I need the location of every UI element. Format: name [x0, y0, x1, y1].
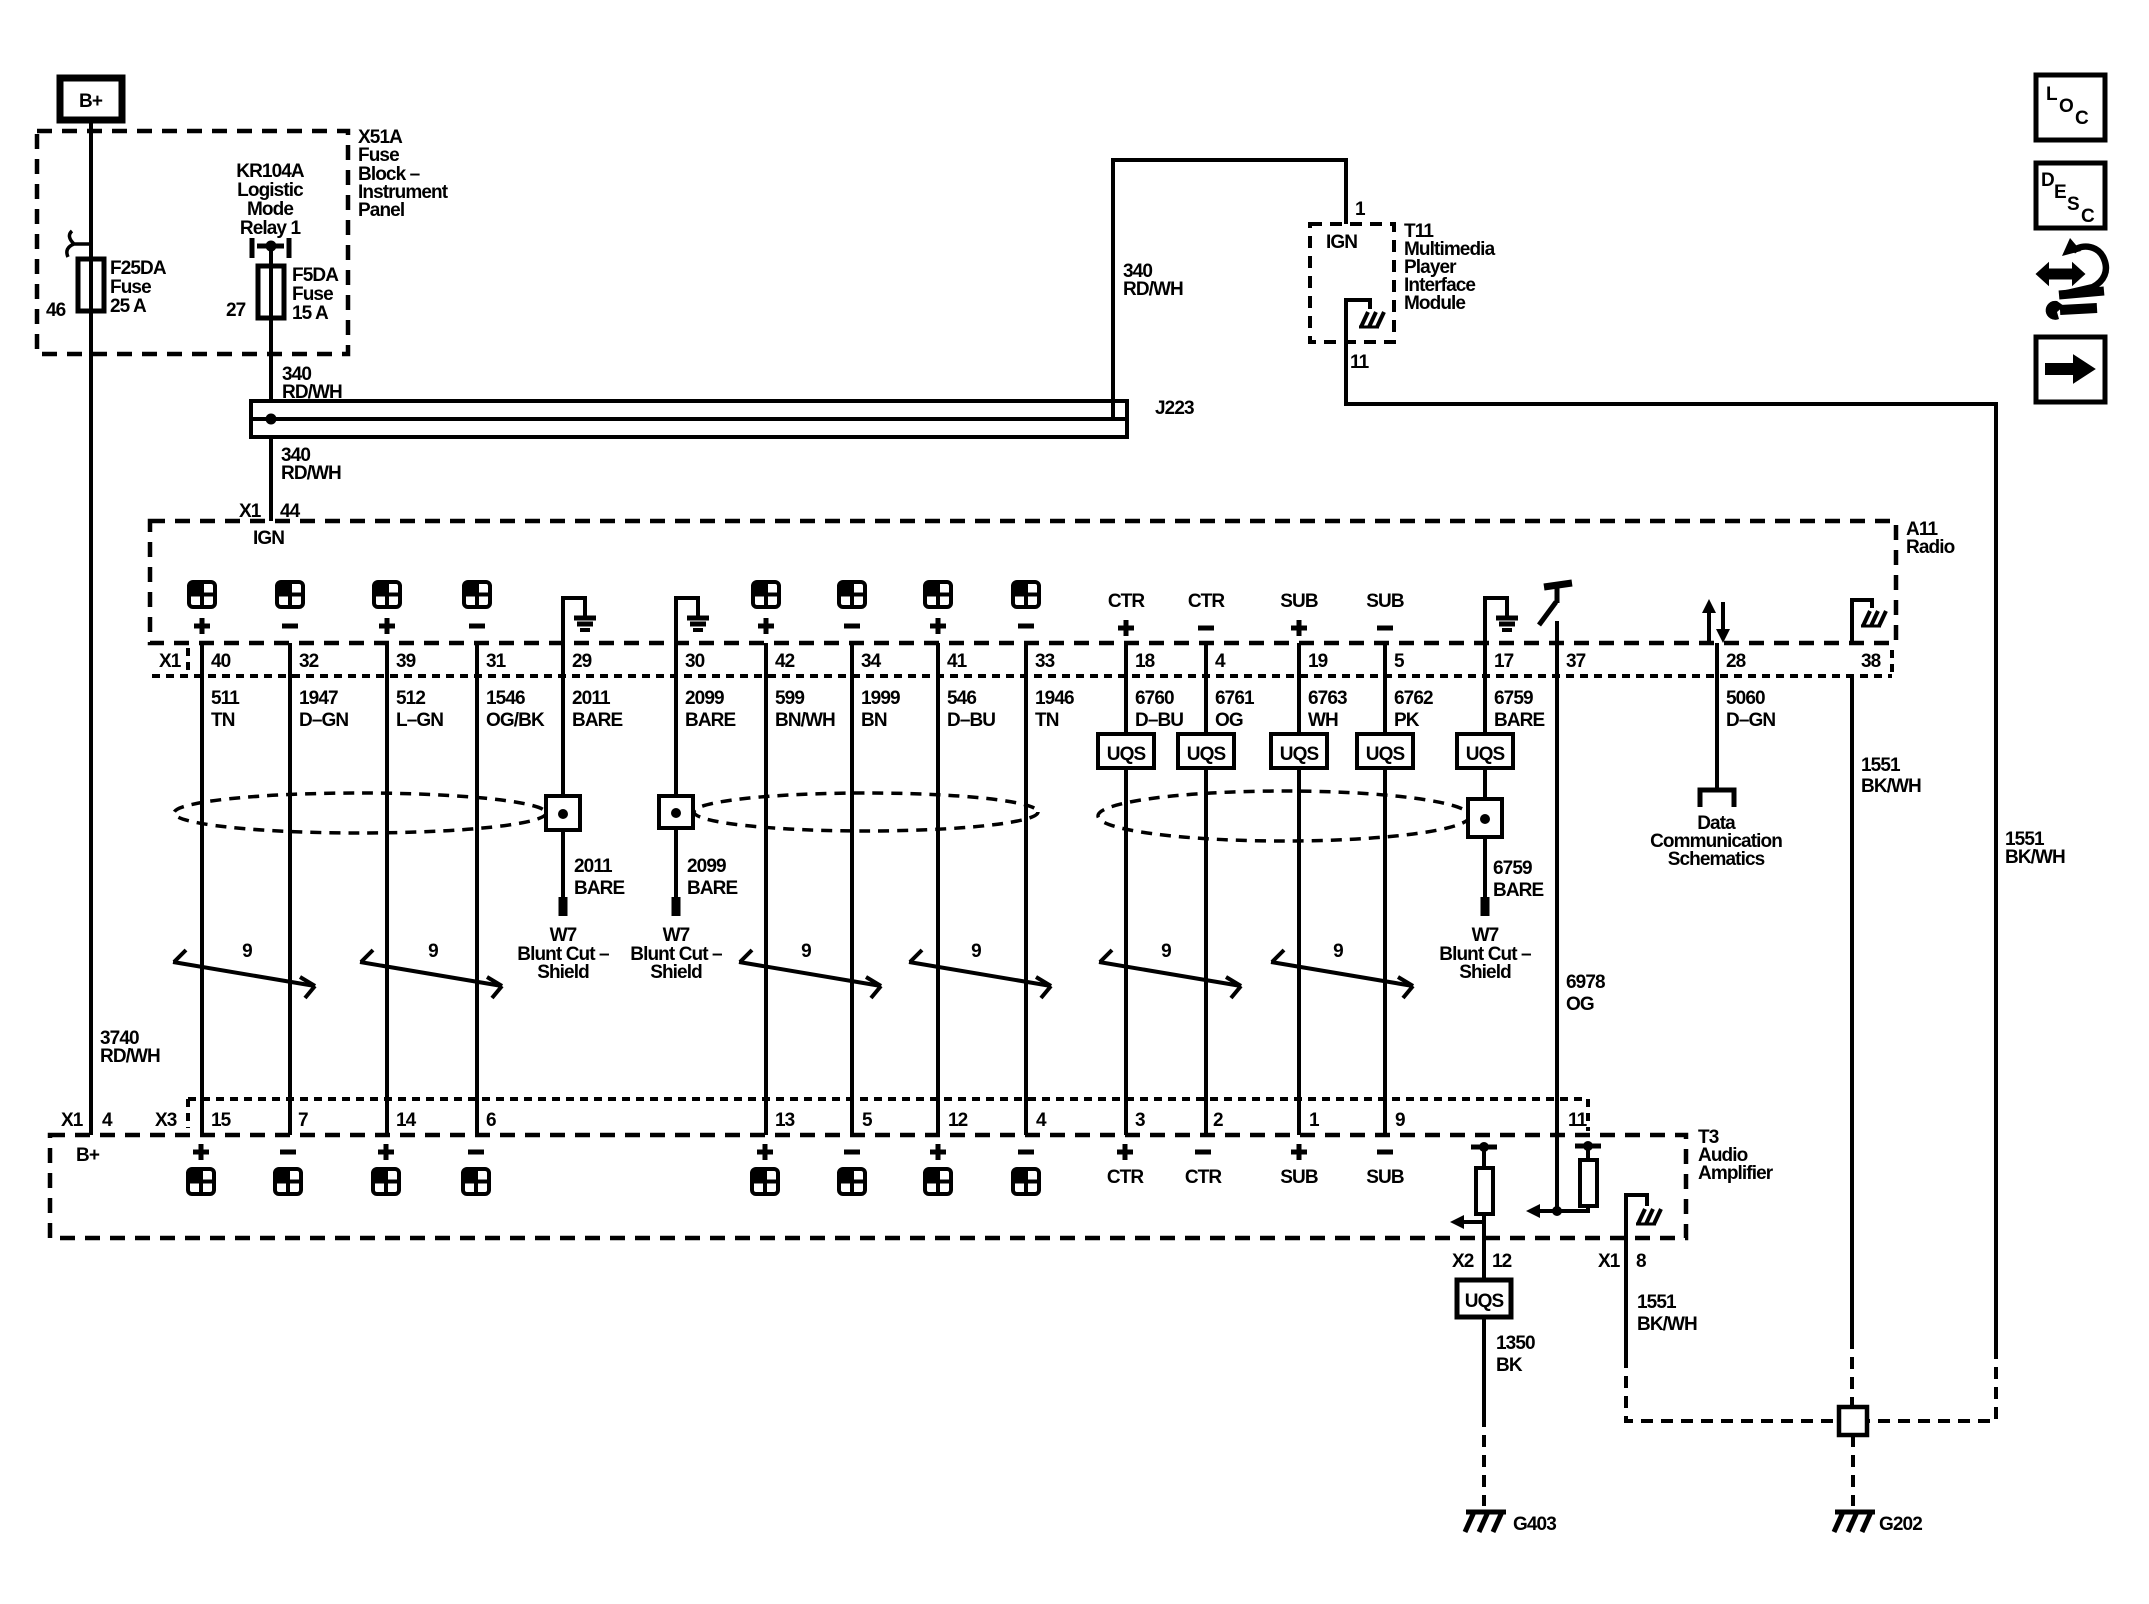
speaker output icon at radio pin x=387 [374, 582, 400, 607]
LOC legend box [2036, 75, 2105, 140]
speaker input icon at amp pin x=1026 [1013, 1169, 1039, 1194]
svg-text:Radio: Radio [1906, 537, 1955, 558]
amp internal chassis arrow at R-a [1450, 1215, 1484, 1229]
wire twist marker 9 #6 [1271, 950, 1413, 998]
svg-text:B+: B+ [76, 1145, 100, 1166]
svg-text:25 A: 25 A [110, 296, 147, 317]
svg-text:6: 6 [486, 1110, 496, 1131]
svg-text:C: C [2081, 206, 2095, 227]
polarity sign at x=1206 [1198, 626, 1214, 631]
shield tie box at pin 29 [546, 796, 580, 830]
fuse block X51A dashed outline [37, 131, 348, 354]
svg-text:W7: W7 [550, 925, 577, 946]
svg-text:CTR: CTR [1107, 1167, 1145, 1188]
fuse F25DA [78, 259, 104, 311]
svg-text:CTR: CTR [1108, 591, 1146, 612]
polarity sign at amp pin x=476 [468, 1150, 484, 1155]
svg-text:UQS: UQS [1465, 1291, 1504, 1312]
polarity sign at amp pin x=765 [757, 1144, 773, 1160]
shield tie box at pin 30 [659, 796, 693, 828]
twisted-pair ellipse front speakers [174, 793, 546, 833]
svg-text:Fuse: Fuse [358, 145, 399, 166]
svg-text:19: 19 [1308, 651, 1328, 672]
svg-text:X1: X1 [1598, 1251, 1621, 1272]
svg-text:Fuse: Fuse [110, 277, 151, 298]
svg-text:5060: 5060 [1726, 688, 1765, 709]
amp internal wire from resistor R-a to X2-12 [1482, 1214, 1486, 1280]
polarity sign at amp pin x=386 [378, 1144, 394, 1160]
svg-text:7: 7 [298, 1110, 308, 1131]
svg-text:BK: BK [1496, 1355, 1523, 1376]
svg-text:2099: 2099 [687, 856, 726, 877]
svg-text:12: 12 [948, 1110, 968, 1131]
svg-text:1: 1 [1355, 199, 1366, 220]
svg-text:29: 29 [572, 651, 592, 672]
wire 1350 BK from amp X2-12 [1482, 1317, 1486, 1415]
amp internal wire from pin 11 junction [1536, 1206, 1588, 1211]
diagnostic icon (arrows and wrench) [2037, 238, 2106, 320]
svg-text:32: 32 [299, 651, 319, 672]
svg-text:UQS: UQS [1366, 744, 1405, 765]
twisted-pair ellipse CTR/SUB [1098, 791, 1470, 841]
wire at x=1385 from radio to amplifier [1383, 643, 1387, 1135]
dashed wire to G403 [1482, 1415, 1486, 1506]
svg-text:BK/WH: BK/WH [1861, 776, 1921, 797]
polarity sign at radio pin x=1026 [1018, 624, 1034, 629]
polarity sign at x=1299 [1291, 620, 1307, 636]
speaker input icon at amp pin x=765 [752, 1169, 778, 1194]
svg-text:WH: WH [1308, 710, 1338, 731]
svg-text:G202: G202 [1879, 1514, 1922, 1535]
svg-text:Panel: Panel [358, 200, 404, 221]
amp internal chassis arrow at pin 11 [1526, 1204, 1540, 1218]
speaker input icon at amp pin x=852 [839, 1169, 865, 1194]
T11 internal ground wire [1346, 300, 1370, 342]
svg-text:13: 13 [775, 1110, 795, 1131]
wire at x=938 from radio to amplifier [936, 643, 940, 1135]
splice pack J223 bus [251, 401, 1127, 437]
radio internal ground above pin 17 [1485, 598, 1518, 643]
svg-text:18: 18 [1135, 651, 1155, 672]
svg-text:UQS: UQS [1107, 744, 1146, 765]
UQS option tag at x=1299 [1271, 734, 1327, 768]
blunt cut stub W7 at pin 30 wire [672, 897, 681, 916]
svg-text:OG: OG [1566, 994, 1594, 1015]
svg-text:34: 34 [861, 651, 882, 672]
polarity sign at amp pin x=1026 [1018, 1150, 1034, 1155]
svg-text:6978: 6978 [1566, 972, 1605, 993]
svg-text:BN/WH: BN/WH [775, 710, 835, 731]
speaker input icon at amp pin x=288 [275, 1169, 301, 1194]
svg-text:Module: Module [1404, 293, 1465, 314]
svg-text:6761: 6761 [1215, 688, 1255, 709]
svg-text:40: 40 [211, 651, 231, 672]
svg-text:BARE: BARE [572, 710, 622, 731]
speaker output icon at radio pin x=477 [464, 582, 490, 607]
svg-text:28: 28 [1726, 651, 1746, 672]
svg-text:L: L [2046, 84, 2058, 105]
svg-text:38: 38 [1861, 651, 1881, 672]
svg-text:L–GN: L–GN [396, 710, 443, 731]
speaker output icon at radio pin x=938 [925, 582, 951, 607]
svg-text:G403: G403 [1513, 1514, 1556, 1535]
polarity sign at radio pin x=290 [282, 624, 298, 629]
speaker output icon at radio pin x=1026 [1013, 582, 1039, 607]
polarity sign at amp pin x=1203 [1195, 1150, 1211, 1155]
svg-text:15 A: 15 A [292, 303, 329, 324]
polarity sign at amp pin x=938 [930, 1144, 946, 1160]
svg-text:OG: OG [1215, 710, 1243, 731]
wire twist marker 9 #5 [1099, 950, 1241, 998]
radio internal ground above pin 29 [563, 598, 596, 643]
dashed continuation of pin 38 wire to G202 splice [1850, 1337, 1854, 1407]
speaker input icon at amp pin x=201 [188, 1169, 214, 1194]
UQS option tag at x=1126 [1098, 734, 1154, 768]
svg-text:OG/BK: OG/BK [486, 710, 545, 731]
svg-text:9: 9 [242, 941, 252, 962]
wire at x=290 from radio to amplifier [288, 643, 292, 1135]
svg-text:4: 4 [1036, 1110, 1047, 1131]
blunt cut stub W7 at pin 29 wire [559, 897, 568, 916]
svg-text:BN: BN [861, 710, 887, 731]
svg-text:17: 17 [1494, 651, 1514, 672]
speaker output icon at radio pin x=852 [839, 582, 865, 607]
svg-text:S: S [2067, 194, 2079, 215]
svg-text:IGN: IGN [253, 528, 284, 549]
svg-text:D–GN: D–GN [1726, 710, 1775, 731]
svg-text:6763: 6763 [1308, 688, 1347, 709]
ground G202 symbol [1834, 1512, 1875, 1532]
svg-text:9: 9 [1161, 941, 1171, 962]
svg-text:F5DA: F5DA [292, 265, 339, 286]
svg-text:W7: W7 [663, 925, 690, 946]
svg-text:Shield: Shield [650, 962, 702, 983]
svg-text:IGN: IGN [1326, 232, 1357, 253]
svg-text:Relay 1: Relay 1 [240, 218, 302, 239]
speaker input icon at amp pin x=938 [925, 1169, 951, 1194]
wire at x=1026 from radio to amplifier [1024, 643, 1028, 1135]
svg-text:Fuse: Fuse [292, 284, 333, 305]
svg-text:D–BU: D–BU [947, 710, 995, 731]
svg-text:4: 4 [102, 1110, 113, 1131]
svg-text:1999: 1999 [861, 688, 900, 709]
svg-text:D–BU: D–BU [1135, 710, 1183, 731]
svg-text:11: 11 [1568, 1110, 1588, 1131]
wire at x=766 from radio to amplifier [764, 643, 768, 1135]
UQS option tag below amplifier [1457, 1280, 1511, 1317]
svg-text:J223: J223 [1155, 398, 1194, 419]
svg-text:9: 9 [1395, 1110, 1405, 1131]
svg-text:4: 4 [1215, 651, 1226, 672]
wire from relay through fuse F5DA to J223 bus [269, 246, 273, 401]
A11 radio dashed box [150, 521, 1896, 643]
svg-text:14: 14 [396, 1110, 417, 1131]
svg-text:41: 41 [947, 651, 968, 672]
polarity sign at x=1385 [1377, 626, 1393, 631]
polarity sign at x=1126 [1118, 620, 1134, 636]
svg-text:5: 5 [862, 1110, 873, 1131]
svg-text:27: 27 [226, 300, 246, 321]
svg-text:UQS: UQS [1466, 744, 1505, 765]
wire at x=852 from radio to amplifier [850, 643, 854, 1135]
svg-text:1: 1 [1309, 1110, 1320, 1131]
svg-text:31: 31 [486, 651, 507, 672]
polarity sign at amp pin x=1299 [1291, 1144, 1307, 1160]
svg-text:599: 599 [775, 688, 804, 709]
shield drain wire radio pin 17 [1483, 643, 1487, 898]
speaker input icon at amp pin x=476 [463, 1169, 489, 1194]
relay KR104A contact symbol [252, 238, 289, 258]
wire 6978 OG from radio pin 37 to amp pin 11... segment [1555, 621, 1559, 1135]
svg-text:512: 512 [396, 688, 425, 709]
wire twist marker 9 #2 [360, 950, 502, 998]
polarity sign at amp pin x=1125 [1117, 1144, 1133, 1160]
svg-text:3: 3 [1135, 1110, 1145, 1131]
amp internal pin 11 wire segment [1555, 1135, 1559, 1211]
polarity sign at amp pin x=1385 [1377, 1150, 1393, 1155]
wire 1551 BK/WH from T11 pin 11 to right side [1346, 342, 1996, 1347]
svg-text:30: 30 [685, 651, 705, 672]
svg-text:12: 12 [1492, 1251, 1512, 1272]
T3 audio amplifier dashed box [50, 1135, 1686, 1238]
speaker output icon at radio pin x=202 [189, 582, 215, 607]
svg-text:6760: 6760 [1135, 688, 1174, 709]
data communication reference bracket [1700, 790, 1734, 807]
svg-text:546: 546 [947, 688, 976, 709]
svg-text:TN: TN [211, 710, 235, 731]
svg-text:1546: 1546 [486, 688, 525, 709]
svg-text:39: 39 [396, 651, 416, 672]
svg-text:Mode: Mode [247, 199, 293, 220]
svg-text:F25DA: F25DA [110, 258, 167, 279]
svg-text:9: 9 [1333, 941, 1343, 962]
svg-text:PK: PK [1394, 710, 1420, 731]
wire 5060 D-GN from radio pin 28 [1715, 643, 1719, 789]
svg-text:BARE: BARE [1494, 710, 1544, 731]
svg-text:1946: 1946 [1035, 688, 1074, 709]
amplifier connector X3 dotted row [188, 1097, 1588, 1101]
junction dot pin 11 to resistor R-b [1552, 1206, 1562, 1216]
svg-text:BARE: BARE [574, 878, 624, 899]
B+ battery terminal box [60, 78, 122, 120]
polarity sign at amp pin x=288 [280, 1150, 296, 1155]
amp internal load resistor R-a [1471, 1142, 1497, 1214]
svg-text:Shield: Shield [537, 962, 589, 983]
serial data arrows above pin 28 [1702, 599, 1730, 643]
T11 module dashed box [1310, 224, 1394, 342]
wire 340 RD/WH from J223 to T11 pin 1 [1113, 160, 1346, 419]
wire twist marker 9 #4 [909, 950, 1051, 998]
DESC legend box [2036, 163, 2105, 228]
twisted-pair ellipse rear speakers [694, 793, 1038, 831]
polarity sign at amp pin x=201 [193, 1144, 209, 1160]
radio internal chassis ground above pin 38 [1852, 600, 1872, 643]
wire at x=387 from radio to amplifier [385, 643, 389, 1135]
svg-text:D: D [2041, 170, 2054, 191]
svg-text:UQS: UQS [1280, 744, 1319, 765]
svg-text:11: 11 [1350, 352, 1370, 373]
wire at x=202 from radio to amplifier [200, 643, 204, 1135]
wire 1551 BK/WH from radio pin 38 [1850, 676, 1854, 1337]
svg-text:15: 15 [211, 1110, 232, 1131]
shield tie box at pin 17 [1468, 799, 1502, 837]
dashed continuation of T11 ground wire to G202 [1867, 1347, 1996, 1421]
svg-text:6762: 6762 [1394, 688, 1433, 709]
polarity sign at radio pin x=202 [194, 618, 210, 634]
svg-text:RD/WH: RD/WH [1123, 279, 1183, 300]
blunt cut stub W7 at pin 17 wire [1481, 897, 1490, 916]
polarity sign at radio pin x=852 [844, 624, 860, 629]
junction dot on J223 [266, 414, 277, 425]
svg-text:RD/WH: RD/WH [281, 463, 341, 484]
svg-text:1551: 1551 [1637, 1292, 1677, 1313]
wire at x=477 from radio to amplifier [475, 643, 479, 1135]
shield drain wire radio pin 30 [674, 643, 678, 898]
svg-text:9: 9 [971, 941, 981, 962]
svg-text:BARE: BARE [687, 878, 737, 899]
svg-text:BK/WH: BK/WH [1637, 1314, 1697, 1335]
speaker output icon at radio pin x=290 [277, 582, 303, 607]
radio antenna element above pin 37 [1539, 583, 1572, 625]
polarity sign at radio pin x=387 [379, 618, 395, 634]
next-page arrow legend box [2036, 337, 2105, 402]
wire at x=1126 from radio to amplifier [1124, 643, 1128, 1135]
svg-text:X2: X2 [1452, 1251, 1474, 1272]
svg-text:BARE: BARE [1493, 880, 1543, 901]
amp internal ground at X1-8 [1626, 1195, 1647, 1238]
wire at x=1299 from radio to amplifier [1297, 643, 1301, 1135]
speaker input icon at amp pin x=386 [373, 1169, 399, 1194]
wire 1551 BK/WH from amp X1-8 [1624, 1238, 1628, 1356]
svg-text:46: 46 [46, 300, 66, 321]
svg-text:UQS: UQS [1187, 744, 1226, 765]
svg-text:E: E [2054, 182, 2066, 203]
svg-text:TN: TN [1035, 710, 1059, 731]
polarity sign at radio pin x=938 [930, 618, 946, 634]
svg-text:BK/WH: BK/WH [2005, 847, 2065, 868]
G202 splice box [1839, 1407, 1867, 1435]
wire twist marker 9 #3 [739, 950, 881, 998]
svg-text:2099: 2099 [685, 688, 724, 709]
radio internal ground above pin 30 [676, 598, 709, 643]
svg-text:X1: X1 [61, 1110, 84, 1131]
svg-text:RD/WH: RD/WH [100, 1046, 160, 1067]
svg-text:1947: 1947 [299, 688, 338, 709]
radio connector X1 dotted row [152, 674, 1892, 678]
svg-text:X3: X3 [155, 1110, 177, 1131]
svg-text:O: O [2059, 96, 2073, 117]
wire at x=1206 from radio to amplifier [1204, 643, 1208, 1135]
dashed stub from splice to G202 [1851, 1435, 1855, 1506]
amp internal load resistor R-b [1575, 1141, 1601, 1206]
svg-text:1551: 1551 [1861, 755, 1901, 776]
svg-text:1350: 1350 [1496, 1333, 1535, 1354]
svg-text:33: 33 [1035, 651, 1055, 672]
svg-text:C: C [2075, 108, 2089, 129]
connector curl at fuse block feed [67, 231, 91, 257]
svg-text:9: 9 [801, 941, 811, 962]
UQS option tag at x=1485 [1457, 734, 1513, 768]
ground G403 symbol [1465, 1512, 1506, 1532]
svg-text:8: 8 [1636, 1251, 1646, 1272]
wire 340 RD/WH from J223 down to radio X1-44 [269, 437, 273, 521]
svg-text:SUB: SUB [1366, 591, 1404, 612]
svg-text:6759: 6759 [1493, 858, 1532, 879]
svg-text:42: 42 [775, 651, 795, 672]
svg-text:KR104A: KR104A [236, 161, 305, 182]
dashed wire from amp X1-8 to G202 splice [1626, 1356, 1839, 1421]
svg-text:B+: B+ [79, 91, 103, 112]
svg-text:CTR: CTR [1185, 1167, 1223, 1188]
svg-text:X1: X1 [159, 651, 182, 672]
UQS option tag at x=1206 [1178, 734, 1234, 768]
svg-text:SUB: SUB [1366, 1167, 1404, 1188]
svg-text:511: 511 [211, 688, 240, 709]
svg-text:W7: W7 [1472, 925, 1499, 946]
UQS option tag at x=1385 [1357, 734, 1413, 768]
svg-text:6759: 6759 [1494, 688, 1533, 709]
svg-text:Schematics: Schematics [1668, 849, 1765, 870]
polarity sign at radio pin x=477 [469, 624, 485, 629]
shield drain wire radio pin 29 [561, 643, 565, 898]
svg-text:2011: 2011 [574, 856, 613, 877]
svg-text:Shield: Shield [1459, 962, 1511, 983]
speaker output icon at radio pin x=766 [753, 582, 779, 607]
svg-text:37: 37 [1566, 651, 1586, 672]
svg-text:CTR: CTR [1188, 591, 1226, 612]
svg-text:5: 5 [1394, 651, 1405, 672]
svg-text:D–GN: D–GN [299, 710, 348, 731]
polarity sign at amp pin x=852 [844, 1150, 860, 1155]
svg-text:2011: 2011 [572, 688, 611, 709]
svg-text:2: 2 [1213, 1110, 1223, 1131]
wire twist marker 9 #1 [173, 950, 315, 998]
fuse F5DA [258, 266, 284, 318]
svg-text:SUB: SUB [1280, 1167, 1318, 1188]
svg-text:Logistic: Logistic [237, 180, 304, 201]
polarity sign at radio pin x=766 [758, 618, 774, 634]
svg-text:SUB: SUB [1280, 591, 1318, 612]
svg-text:BARE: BARE [685, 710, 735, 731]
svg-text:Amplifier: Amplifier [1698, 1163, 1774, 1184]
svg-text:9: 9 [428, 941, 438, 962]
T11 internal chassis ground [1359, 312, 1384, 327]
wire 3740 RD/WH from B+ down left side to amplifier X1-4 [89, 120, 93, 1135]
